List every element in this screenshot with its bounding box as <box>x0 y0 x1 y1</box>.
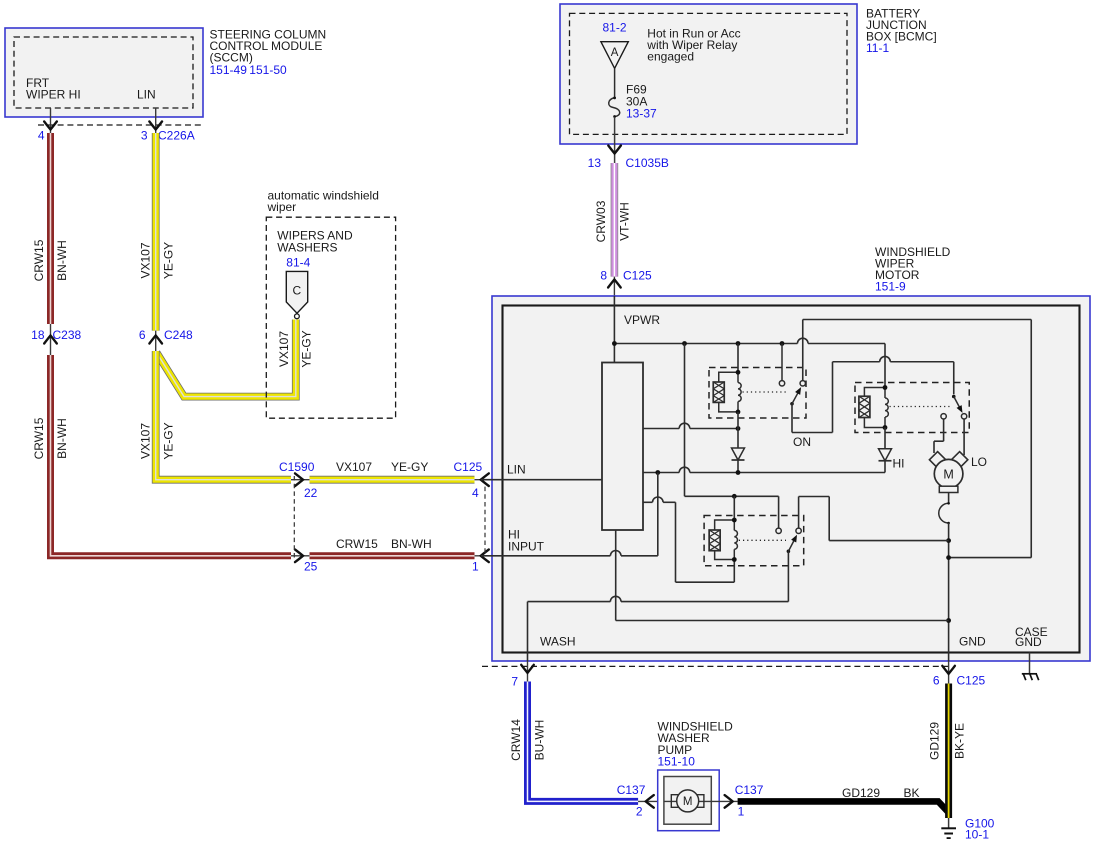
svg-text:LO: LO <box>971 455 987 469</box>
svg-text:GND: GND <box>1015 635 1042 649</box>
relay RUN/PARK dashed box <box>704 516 804 566</box>
svg-text:YE-GY: YE-GY <box>162 242 176 279</box>
svg-text:GD129: GD129 <box>928 722 942 760</box>
svg-text:BN-WH: BN-WH <box>55 418 69 459</box>
svg-text:C238: C238 <box>53 328 82 342</box>
connector C125 pin 4 (LIN) <box>454 460 493 500</box>
relay RUN/PARK coil feed <box>733 496 735 520</box>
svg-text:GND: GND <box>959 635 986 649</box>
svg-text:CRW15: CRW15 <box>32 417 46 459</box>
svg-text:YE-GY: YE-GY <box>391 460 428 474</box>
label SCCM title <box>210 27 327 77</box>
svg-text:CRW03: CRW03 <box>594 200 608 242</box>
wire block bottom output to GND node <box>616 530 949 621</box>
connector C1590 pin 25 <box>291 550 318 574</box>
svg-text:2: 2 <box>636 805 643 819</box>
circuit breaker below motor <box>939 493 951 662</box>
svg-text:YE-GY: YE-GY <box>300 330 314 367</box>
diode relay ON <box>732 448 745 473</box>
svg-text:GD129: GD129 <box>842 786 880 800</box>
wire RUN/PARK wiper to WASH line <box>787 551 789 601</box>
svg-text:BN-WH: BN-WH <box>55 240 69 281</box>
relay RUN/PARK coil-contact dotted link <box>739 539 786 541</box>
svg-text:151-9: 151-9 <box>875 280 906 294</box>
pin 3 SCCM / connector C226A <box>141 108 195 143</box>
wire RUN/PARK NC contact to motor return <box>799 497 949 541</box>
resistor in relay ON <box>713 372 738 412</box>
relay ON switch <box>779 344 805 406</box>
coil in relay RUN/PARK <box>732 518 738 562</box>
wire HI INPUT <box>481 473 658 556</box>
wire fuse to connector C1035B <box>614 117 616 163</box>
relay ON coil feed <box>737 344 739 373</box>
wire VX107 YE-GY vertical segment 2 and horizontal run <box>139 351 291 480</box>
svg-text:CRW14: CRW14 <box>509 719 523 761</box>
svg-text:HI: HI <box>893 457 905 471</box>
svg-text:11-1: 11-1 <box>866 41 889 55</box>
wire CRW15 BN-WH vertical segment 2 and horizontal run <box>32 355 291 556</box>
svg-text:YE-GY: YE-GY <box>162 422 176 459</box>
ground G100 symbol <box>941 816 994 841</box>
connector C125 pin 8 <box>600 269 652 297</box>
svg-text:10-1: 10-1 <box>965 828 989 839</box>
motor M (wiper motor armature) <box>929 452 967 493</box>
switch RUN/PARK <box>776 528 801 553</box>
svg-text:engaged: engaged <box>647 49 694 63</box>
svg-text:22: 22 <box>304 486 318 500</box>
svg-text:WIPER HI: WIPER HI <box>26 88 81 102</box>
svg-text:13-37: 13-37 <box>626 107 657 121</box>
svg-text:151-50: 151-50 <box>249 63 287 77</box>
svg-text:13: 13 <box>588 156 602 170</box>
svg-text:BN-WH: BN-WH <box>391 537 432 551</box>
coil in relay HI <box>883 385 889 430</box>
label battery box title <box>866 6 937 55</box>
svg-text:1: 1 <box>472 560 479 574</box>
svg-text:C1035B: C1035B <box>626 156 669 170</box>
connector C125 bottom dashed line <box>482 665 949 667</box>
wire LO switch NC contact to motor right brush <box>963 419 965 455</box>
svg-text:BK-YE: BK-YE <box>953 723 967 759</box>
wire block output c (to run/park relay coil) <box>643 497 734 582</box>
connector C226A dashed line <box>38 124 202 126</box>
wire from A to fuse <box>614 68 616 97</box>
wire block output a (to relay ON coil) <box>643 412 740 448</box>
connector C1590 pin 22 <box>279 460 318 500</box>
svg-text:3: 3 <box>141 129 148 143</box>
svg-text:A: A <box>611 47 619 59</box>
svg-text:151-10: 151-10 <box>658 754 696 768</box>
svg-text:BU-WH: BU-WH <box>533 720 547 761</box>
motor M (washer pump) <box>664 790 738 812</box>
svg-text:C226A: C226A <box>158 129 195 143</box>
svg-text:VX107: VX107 <box>336 460 372 474</box>
connector C137 pin 1 <box>725 783 764 819</box>
svg-text:81-2: 81-2 <box>603 21 627 35</box>
wire relay ON output (to LO switch common) <box>792 356 954 432</box>
connector C248 pin 6 <box>139 328 193 351</box>
relay ON dashed box <box>709 368 806 419</box>
wire CRW15 BN-WH horizontal segment 2 <box>310 537 475 556</box>
node VPWR rail <box>612 338 885 346</box>
svg-text:6: 6 <box>933 674 940 688</box>
connector C238 pin 18 <box>31 324 81 355</box>
svg-text:C: C <box>292 284 301 298</box>
svg-text:BK: BK <box>904 786 920 800</box>
svg-text:4: 4 <box>472 486 479 500</box>
svg-text:WASHERS: WASHERS <box>277 241 337 255</box>
wire WASH output <box>528 596 789 661</box>
svg-text:LIN: LIN <box>507 463 526 477</box>
svg-text:INPUT: INPUT <box>508 540 545 554</box>
case ground wire and chassis ground symbol <box>1022 653 1039 681</box>
svg-text:wiper: wiper <box>267 200 297 214</box>
label CASE GND pin <box>1015 625 1048 649</box>
wire CRW14 BU-WH (blue) <box>509 682 638 802</box>
relay HI coil feed <box>884 344 886 388</box>
svg-text:VPWR: VPWR <box>624 313 660 327</box>
svg-text:VX107: VX107 <box>277 331 291 367</box>
svg-text:25: 25 <box>304 560 318 574</box>
svg-text:1: 1 <box>738 805 745 819</box>
resistor in relay HI <box>859 388 885 428</box>
svg-text:C137: C137 <box>617 783 646 797</box>
wire VX107 YE-GY horizontal segment 2 <box>310 460 475 480</box>
label wiper motor title <box>875 245 951 294</box>
svg-text:C248: C248 <box>164 328 193 342</box>
power source symbol A (81-2) <box>601 21 741 69</box>
wire CRW15 BN-WH vertical segment 1 <box>32 133 69 324</box>
wire VPWR feed <box>614 296 660 363</box>
svg-text:VX107: VX107 <box>139 242 153 278</box>
coil in relay ON <box>736 370 742 414</box>
svg-text:8: 8 <box>600 269 607 283</box>
wire LO switch NO contact to motor left brush <box>934 419 944 453</box>
module box SCCM (Steering Column Control Module) <box>5 28 203 117</box>
svg-text:LIN: LIN <box>137 88 156 102</box>
wire GD129 BK (black) <box>738 786 949 813</box>
connector C125 pin 1 (HI INPUT) <box>472 550 492 574</box>
function box automatic windshield wiper <box>266 188 395 418</box>
svg-text:WASH: WASH <box>540 635 576 649</box>
svg-text:18: 18 <box>31 328 45 342</box>
connector C125 pin 6 (GND) <box>933 661 986 688</box>
svg-text:ON: ON <box>793 435 811 449</box>
svg-text:C137: C137 <box>735 783 764 797</box>
svg-text:4: 4 <box>38 129 45 143</box>
svg-text:M: M <box>683 796 693 808</box>
resistor in relay RUN/PARK <box>709 520 734 560</box>
svg-text:M: M <box>943 468 953 482</box>
control block (electronic module) <box>602 363 643 531</box>
svg-text:6: 6 <box>139 328 146 342</box>
pin 4 SCCM (FRT WIPER HI) <box>38 108 57 143</box>
diode relay HI <box>879 428 905 473</box>
wire GD129 BK-YE (black-yellow) <box>928 684 967 819</box>
in-line connector C (81-4) <box>286 271 307 318</box>
module box Battery Junction Box BCMC <box>560 4 857 144</box>
svg-text:C125: C125 <box>454 460 483 474</box>
switch LO (in relay HI) <box>941 395 967 419</box>
relay ON coil-contact dotted link <box>743 391 789 393</box>
fuse F69 30A <box>609 83 657 121</box>
svg-text:VX107: VX107 <box>139 423 153 459</box>
svg-text:7: 7 <box>511 675 518 689</box>
wire block output b (diode anode rail) <box>643 467 885 475</box>
module box Windshield Washer Pump <box>658 770 720 831</box>
svg-text:CRW15: CRW15 <box>336 537 378 551</box>
connector C125 dashed line (left) <box>484 487 486 556</box>
wire CRW03 VT-WH (violet) <box>594 163 632 277</box>
wire VX107 YE-GY vertical segment 1 <box>139 133 176 331</box>
wire relay ON NC contact to motor return <box>803 320 1032 558</box>
svg-text:C125: C125 <box>957 674 986 688</box>
relay HI dashed box <box>855 383 969 433</box>
connector C1590 dashed line <box>293 476 295 560</box>
svg-text:CRW15: CRW15 <box>32 239 46 281</box>
relay HI coil-contact dotted link <box>890 406 951 408</box>
connector C125 pin 7 (WASH) <box>511 661 533 689</box>
svg-text:151-49: 151-49 <box>210 63 248 77</box>
connector C137 pin 2 <box>617 783 658 819</box>
svg-text:81-4: 81-4 <box>286 255 310 269</box>
svg-text:C125: C125 <box>623 269 652 283</box>
wire LIN input <box>481 463 602 480</box>
wire VX107 YE-GY branch to in-line connector C <box>157 320 314 397</box>
svg-text:VT-WH: VT-WH <box>618 202 632 241</box>
connector C1035B pin 13 <box>588 146 669 170</box>
svg-text:C1590: C1590 <box>279 460 315 474</box>
wire relay feed branch (VPWR to relay coils/contacts) <box>685 344 779 528</box>
label washer pump title <box>658 720 734 769</box>
module box Windshield Wiper Motor <box>492 296 1090 661</box>
